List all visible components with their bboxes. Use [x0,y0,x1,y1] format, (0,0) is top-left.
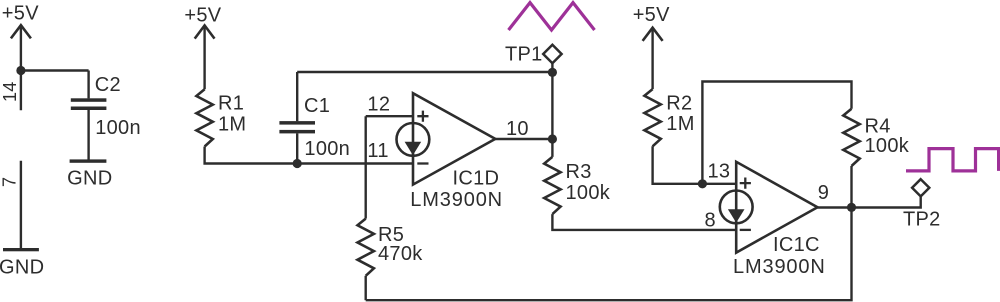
op-amp IC1D triangle [413,93,495,184]
square wave symbol [906,149,999,171]
wire pin 7 stub [20,161,22,248]
node output IC1D [548,134,557,143]
svg-text:+5V: +5V [184,5,221,27]
svg-text:9: 9 [818,182,829,204]
svg-text:14: 14 [0,81,20,102]
svg-text:+5V: +5V [2,3,39,25]
capacitor C1 [279,121,315,133]
wire R5 bottom stub [365,276,367,300]
wire pin 12 input [366,115,413,117]
svg-text:IC1D: IC1D [453,168,500,190]
svg-text:100n: 100n [304,138,350,160]
node output IC1C [847,203,856,212]
svg-text:R2: R2 [666,92,692,114]
node TP1 [548,68,557,77]
wire output pin 10 [495,138,552,140]
svg-text:8: 8 [705,210,716,232]
resistor R1 [196,89,212,146]
svg-text:12: 12 [367,93,390,115]
wire pin 12 vertical to R5 [365,116,367,218]
svg-text:LM3900N: LM3900N [733,256,826,278]
+5V arrow (R2) [643,28,663,41]
op-amp IC1C triangle [736,162,817,253]
svg-text:+5V: +5V [633,4,670,26]
+5V arrow (left) [11,25,31,38]
triangle wave symbol [509,3,595,30]
svg-text:IC1C: IC1C [773,234,820,256]
wire R4 bottom stub [850,166,852,207]
svg-text:C2: C2 [95,74,121,96]
svg-text:100n: 100n [95,117,141,139]
wire TP1 vertical [551,63,553,157]
node C1 bottom junction [293,159,302,168]
svg-text:100k: 100k [865,135,910,157]
test point TP2 diamond [912,179,929,196]
capacitor C2 [71,98,107,110]
wire feedback loop top [702,82,851,184]
wire C2 bottom stub [87,110,89,160]
node supply junction [16,66,25,75]
svg-text:GND: GND [67,168,112,190]
wire R3 bottom to pin 8 [552,214,736,230]
wire R2 bottom to pin 13 [653,146,737,184]
plus sign (IC1D) [417,111,428,122]
resistor R2 [644,89,660,146]
svg-text:GND: GND [0,256,44,278]
svg-text:C1: C1 [304,95,330,117]
wire C1 top stub [296,72,298,121]
wire R1 bottom to inverting input (pin 11 net) [205,147,413,164]
plus sign (IC1C) [740,178,751,189]
current source symbol (IC1D) [397,123,430,156]
svg-text:R3: R3 [566,161,592,183]
minus sign (IC1D) [417,162,428,164]
svg-text:13: 13 [708,161,731,183]
+5V arrow (R1) [195,25,215,38]
wire R2 top shaft [651,28,653,89]
wire C1 bottom stub [296,133,298,163]
minus sign (IC1C) [740,229,751,231]
resistor R3 [544,157,560,214]
svg-text:10: 10 [506,118,529,140]
svg-text:R1: R1 [218,93,244,115]
svg-text:100k: 100k [566,182,611,204]
svg-text:7: 7 [0,177,20,187]
wire bottom feedback to output node [366,207,852,300]
svg-text:11: 11 [367,140,388,162]
node pin 13 junction [698,179,707,188]
wire C1 to TP1 node [297,71,552,73]
wire C2 top stub [87,71,89,99]
ground (C2) [70,159,107,162]
svg-text:1M: 1M [218,114,246,136]
test point TP1 diamond [543,45,561,63]
svg-text:1M: 1M [666,113,694,135]
wire R1 top shaft [203,25,205,89]
resistor R5 [358,219,374,276]
wire +5V shaft / pin 14 stub [20,25,22,110]
ground (pin 7) [3,248,39,251]
current source symbol (IC1C) [720,191,753,224]
svg-text:470k: 470k [378,243,423,265]
wire junction to C2 [21,69,89,71]
svg-text:LM3900N: LM3900N [410,189,503,211]
wire output pin 9 [818,196,921,207]
svg-text:TP2: TP2 [903,209,941,231]
resistor R4 [843,109,859,166]
svg-text:TP1: TP1 [505,44,543,66]
